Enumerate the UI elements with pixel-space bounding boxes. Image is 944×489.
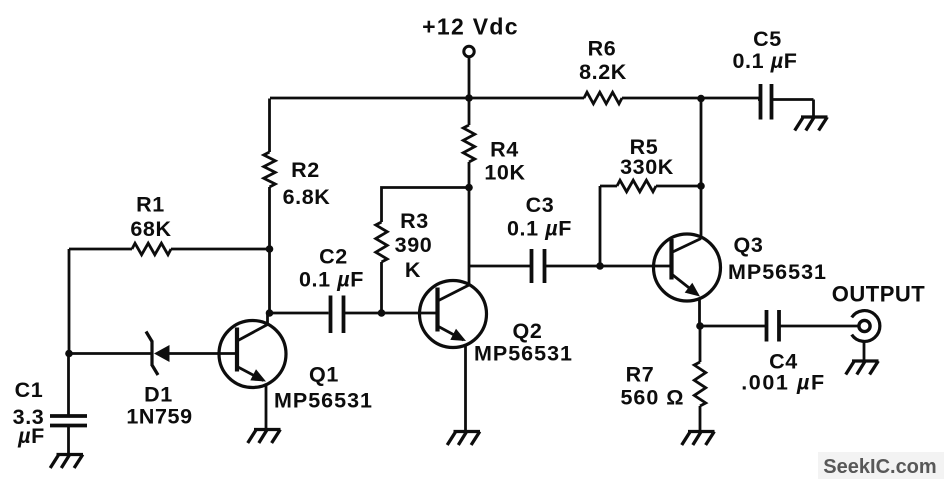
- svg-text:SeekIC.com: SeekIC.com: [823, 456, 936, 478]
- svg-text:.001 µF: .001 µF: [741, 371, 826, 395]
- svg-text:Q3: Q3: [734, 233, 764, 257]
- svg-text:R2: R2: [291, 158, 320, 182]
- svg-text:Q1: Q1: [309, 363, 339, 387]
- svg-text:390: 390: [395, 233, 433, 257]
- svg-text:MP56531: MP56531: [274, 389, 373, 413]
- svg-text:C1: C1: [15, 378, 44, 402]
- svg-text:330K: 330K: [620, 155, 674, 179]
- svg-text:6.8K: 6.8K: [283, 185, 331, 209]
- svg-text:C5: C5: [753, 27, 782, 51]
- svg-text:68K: 68K: [130, 217, 171, 241]
- svg-text:0.1 µF: 0.1 µF: [299, 268, 364, 292]
- svg-text:C3: C3: [526, 193, 555, 217]
- svg-text:OUTPUT: OUTPUT: [832, 282, 926, 307]
- svg-text:0.1 µF: 0.1 µF: [507, 217, 572, 241]
- svg-text:0.1 µF: 0.1 µF: [733, 49, 798, 73]
- svg-text:R4: R4: [490, 138, 519, 162]
- svg-text:Q2: Q2: [513, 319, 543, 343]
- svg-text:1N759: 1N759: [126, 405, 192, 429]
- svg-text:MP56531: MP56531: [474, 342, 573, 366]
- svg-text:D1: D1: [144, 383, 173, 407]
- svg-text:R6: R6: [588, 37, 617, 61]
- svg-text:µF: µF: [17, 424, 45, 448]
- svg-text:+12 Vdc: +12 Vdc: [422, 14, 519, 40]
- svg-text:K: K: [405, 258, 421, 282]
- svg-text:MP56531: MP56531: [728, 260, 827, 284]
- svg-text:10K: 10K: [484, 161, 525, 185]
- svg-text:560 Ω: 560 Ω: [620, 386, 684, 410]
- svg-text:C2: C2: [319, 245, 348, 269]
- svg-text:R7: R7: [626, 363, 655, 387]
- svg-text:8.2K: 8.2K: [579, 60, 627, 84]
- svg-text:R3: R3: [400, 209, 429, 233]
- svg-text:R1: R1: [136, 193, 165, 217]
